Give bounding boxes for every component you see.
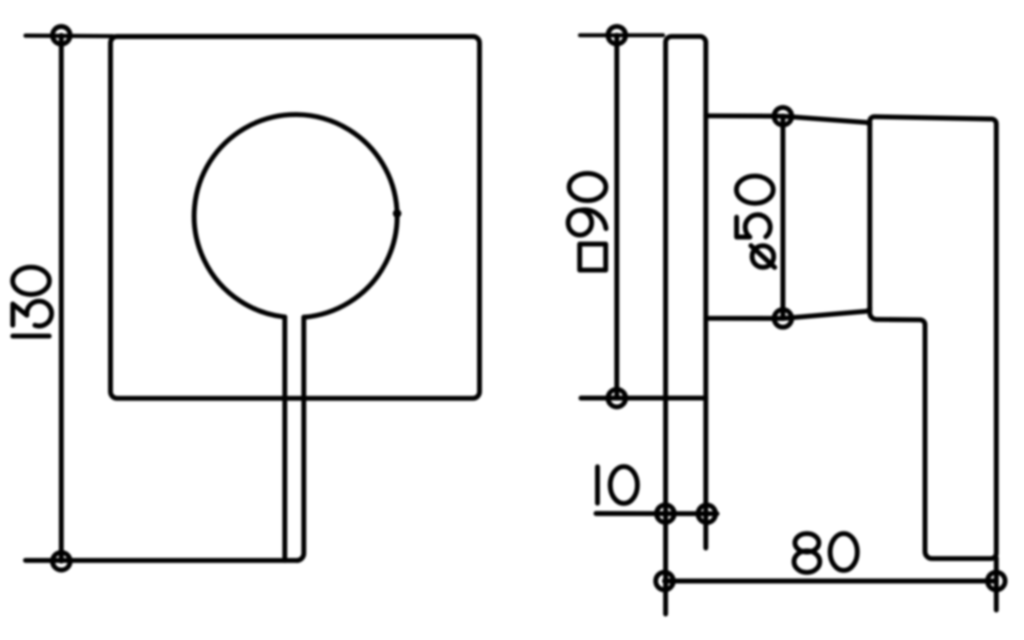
- dimension line diameter50: [780, 116, 785, 318]
- extension line top-left: [26, 33, 114, 38]
- handle circle: [194, 115, 397, 318]
- dimension line 80: [665, 579, 997, 584]
- dimension line square90: [614, 35, 619, 398]
- dim circle d50 top: [774, 107, 792, 125]
- dim circle 80 left: [656, 572, 674, 590]
- handle outline: [870, 117, 997, 559]
- label square90 (rotated): [568, 173, 606, 270]
- extension line bottom (square90) + plate bottom edge: [581, 396, 706, 401]
- label 130 (rotated): [13, 267, 52, 336]
- label 10: [598, 467, 638, 504]
- label 80: [794, 534, 857, 573]
- dimension line 130: [59, 35, 64, 561]
- lever stem: [285, 317, 304, 560]
- dim circle sq90 bottom: [608, 389, 626, 407]
- dim circle 10 right: [698, 505, 716, 523]
- extension line top (square90): [580, 33, 663, 37]
- label diameter50 (rotated): [736, 176, 774, 267]
- escutcheon top edge: [706, 116, 870, 125]
- dim circle 130 bottom: [53, 552, 71, 570]
- wall plate square: [111, 37, 480, 399]
- wall plate side: front edge + extension down to 80 dim: [666, 36, 706, 614]
- escutcheon bottom edge: [706, 309, 870, 319]
- dim circle d50 bottom: [774, 310, 792, 328]
- extension: handle right edge down to 80 dim: [994, 558, 999, 610]
- extension line bottom: [26, 558, 299, 563]
- dimension line 10: [596, 511, 717, 516]
- dim circle 10 left: [657, 505, 675, 523]
- dim circle 130 top: [53, 27, 71, 45]
- marker dot on circle: [393, 209, 402, 218]
- dim circle sq90 top: [608, 26, 626, 44]
- dim circle 80 right: [988, 572, 1006, 590]
